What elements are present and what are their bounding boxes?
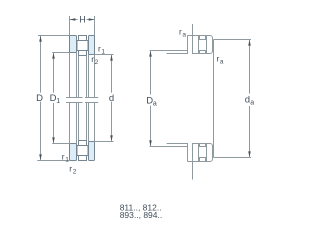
top section: roller [77, 41, 88, 51]
da arrow top [248, 40, 251, 46]
bore line washer A right [76, 53, 78, 144]
H arrow left [70, 18, 76, 21]
bottom bearing: cage lower bar [200, 158, 206, 162]
svg-text:d: d [109, 93, 114, 104]
bottom section: washer B (right, blue) [89, 142, 95, 161]
Da arrow top [149, 51, 152, 57]
D arrow bottom [39, 154, 42, 160]
D arrow top [39, 36, 42, 42]
bottom bearing: cage upper bar [200, 144, 206, 147]
D1 extension line bottom [52, 143, 70, 145]
top section: cage lower bar [79, 51, 87, 56]
svg-text:a: a [220, 59, 224, 66]
D extension line bottom [37, 160, 70, 162]
bottom section: cage upper bar [79, 141, 87, 146]
housing face [213, 40, 215, 158]
bore line washer A left [69, 53, 71, 144]
svg-text:a: a [153, 100, 157, 107]
D extension line top [38, 35, 70, 37]
shaft abutment line bottom (Da extension) [150, 146, 188, 148]
break line upper [66, 97, 83, 99]
d extension line bottom [95, 141, 114, 143]
top section: washer A (left, blue) [70, 36, 77, 53]
svg-text:a: a [182, 31, 186, 38]
bore line washer B right [94, 55, 96, 142]
svg-text:1: 1 [56, 98, 60, 105]
svg-text:893.., 894..: 893.., 894.. [120, 210, 163, 220]
bore line cage left [78, 56, 80, 141]
D dimension line [40, 36, 42, 93]
top bearing: roller [199, 40, 207, 51]
shaft shoulder bottom edge [188, 161, 193, 163]
svg-text:2: 2 [73, 168, 77, 175]
D1 extension line top [52, 52, 69, 54]
top section: cage upper bar [79, 36, 87, 41]
bore line washer B left [88, 55, 90, 142]
D1 arrow top [52, 53, 55, 59]
break band mask [63, 98, 100, 102]
d extension line top [95, 54, 114, 56]
shaft shoulder face top [187, 36, 189, 54]
D1 dimension line [53, 53, 55, 93]
ra extension line bottom [192, 162, 194, 180]
svg-text:a: a [250, 99, 254, 106]
H extension line right [94, 16, 96, 36]
shaft surface line bottom [167, 143, 188, 145]
H dimension line [70, 19, 78, 21]
da arrow bottom [248, 151, 251, 157]
top bearing: washer 1 [193, 36, 199, 54]
H extension line left [69, 16, 71, 36]
shaft shoulder top edge [188, 35, 193, 37]
d arrow bottom [110, 135, 113, 141]
svg-text:1: 1 [65, 156, 69, 163]
da dimension line [249, 40, 251, 94]
top bearing: washer 2 [207, 36, 213, 54]
top bearing: cage lower bar [200, 51, 206, 54]
svg-text:2: 2 [95, 59, 99, 66]
top bearing: cage upper bar [200, 36, 206, 40]
bottom section: washer A (left, blue) [70, 144, 77, 161]
bottom bearing: washer 1 [193, 144, 199, 162]
shaft abutment line top (Da extension) [150, 50, 188, 52]
H arrow right [89, 18, 95, 21]
ra extension line top [192, 24, 194, 36]
bore line cage right [86, 56, 88, 141]
housing bore line bottom (da extension) [214, 157, 252, 159]
svg-text:1: 1 [101, 49, 105, 56]
bottom bearing: roller [199, 147, 207, 158]
shaft shoulder face bottom [187, 144, 189, 162]
Da dimension line [150, 51, 152, 95]
break line lower [66, 102, 83, 104]
Da arrow bottom [149, 140, 152, 146]
d arrow top [110, 55, 113, 61]
D1 arrow bottom [52, 137, 55, 143]
top section: washer B (right, blue) [89, 36, 95, 55]
bottom section: cage lower bar [79, 156, 87, 161]
bottom section: roller [77, 146, 88, 156]
bottom bearing: washer 2 [207, 144, 213, 162]
d dimension line [111, 55, 113, 93]
shaft surface line top [167, 53, 188, 55]
svg-text:H: H [79, 15, 86, 25]
svg-text:D: D [36, 93, 43, 104]
housing bore line top (da extension) [214, 39, 252, 41]
